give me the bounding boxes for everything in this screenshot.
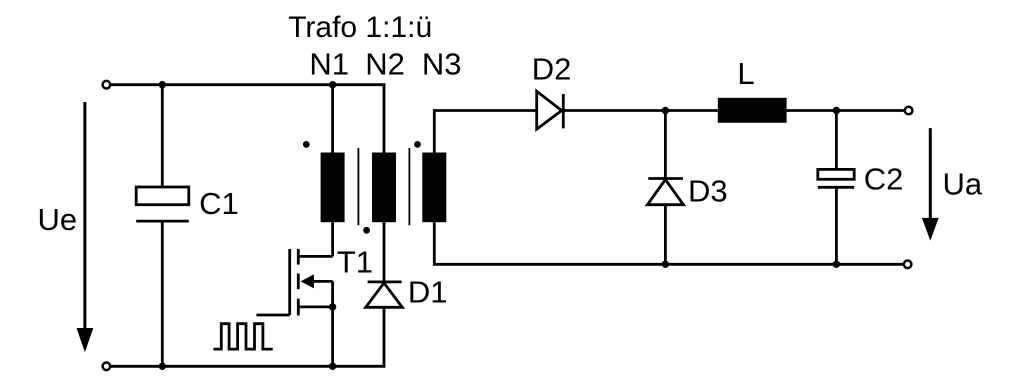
wire L to output terminal <box>787 109 905 112</box>
svg-text:Trafo 1:1:ü: Trafo 1:1:ü <box>288 11 432 44</box>
svg-text:C2: C2 <box>864 162 904 197</box>
capacitor C2 <box>818 169 854 187</box>
wire N2 bottom to D1 <box>383 222 386 282</box>
svg-text:N1: N1 <box>309 46 349 81</box>
terminal input top <box>103 81 111 89</box>
wire N3 bottom to output rail <box>434 222 904 264</box>
svg-text:T1: T1 <box>337 245 373 280</box>
wire N1 top lead <box>331 85 334 153</box>
svg-text:Ue: Ue <box>38 202 78 237</box>
diode D2 <box>537 91 564 129</box>
wire bottom input rail <box>111 307 385 366</box>
node junction top C1 <box>159 81 166 88</box>
wire C2 top lead <box>835 111 838 170</box>
terminal input bottom <box>103 363 111 371</box>
svg-text:Ua: Ua <box>943 167 983 202</box>
terminal output top <box>905 107 913 115</box>
wire N3 top to D2 <box>434 111 536 154</box>
node junction bottom C1 <box>159 363 166 370</box>
svg-text:C1: C1 <box>199 186 239 221</box>
svg-text:N2: N2 <box>365 46 405 81</box>
gate pulse waveform <box>214 324 273 349</box>
node junction C2 bottom <box>833 261 840 268</box>
terminal output bottom <box>904 261 912 269</box>
wire C1 top lead <box>161 85 164 187</box>
arrow Ua <box>922 128 939 241</box>
transformer winding N3 <box>422 153 446 223</box>
wire C2 bottom lead <box>835 187 838 264</box>
node phase dot N3 <box>414 141 421 148</box>
node junction T1 source <box>329 303 336 310</box>
inductor L <box>718 98 787 123</box>
transformer winding N1 <box>321 153 345 223</box>
svg-text:L: L <box>737 56 754 91</box>
transformer winding N2 <box>372 153 396 223</box>
wire D2 to L <box>563 109 718 112</box>
transistor T1 <box>256 249 332 316</box>
capacitor C1 <box>136 187 189 221</box>
node junction D3 bottom <box>662 261 669 268</box>
transformer core line right <box>408 148 410 225</box>
diode D1 <box>366 282 403 307</box>
svg-text:D3: D3 <box>688 174 728 209</box>
wire D3 anode to bottom rail <box>664 205 667 265</box>
transformer core line left <box>357 148 359 225</box>
node phase dot N2 <box>363 227 370 234</box>
node junction top N1 <box>329 81 336 88</box>
diode D3 <box>647 179 683 205</box>
node junction C2 top <box>833 107 840 114</box>
wire D3 cathode lead <box>664 111 667 179</box>
node junction D3 top <box>662 107 669 114</box>
arrow Ue <box>77 102 94 352</box>
svg-text:N3: N3 <box>422 46 462 81</box>
wire T1 source to bottom rail <box>331 307 334 366</box>
node junction bottom T1 source <box>329 363 336 370</box>
wire C1 bottom lead <box>161 221 164 366</box>
svg-text:D2: D2 <box>532 52 572 87</box>
node phase dot N1 <box>303 141 310 148</box>
svg-text:D1: D1 <box>408 275 448 310</box>
wire N1 bottom to T1 drain <box>331 222 334 256</box>
wire top input rail <box>111 85 385 153</box>
